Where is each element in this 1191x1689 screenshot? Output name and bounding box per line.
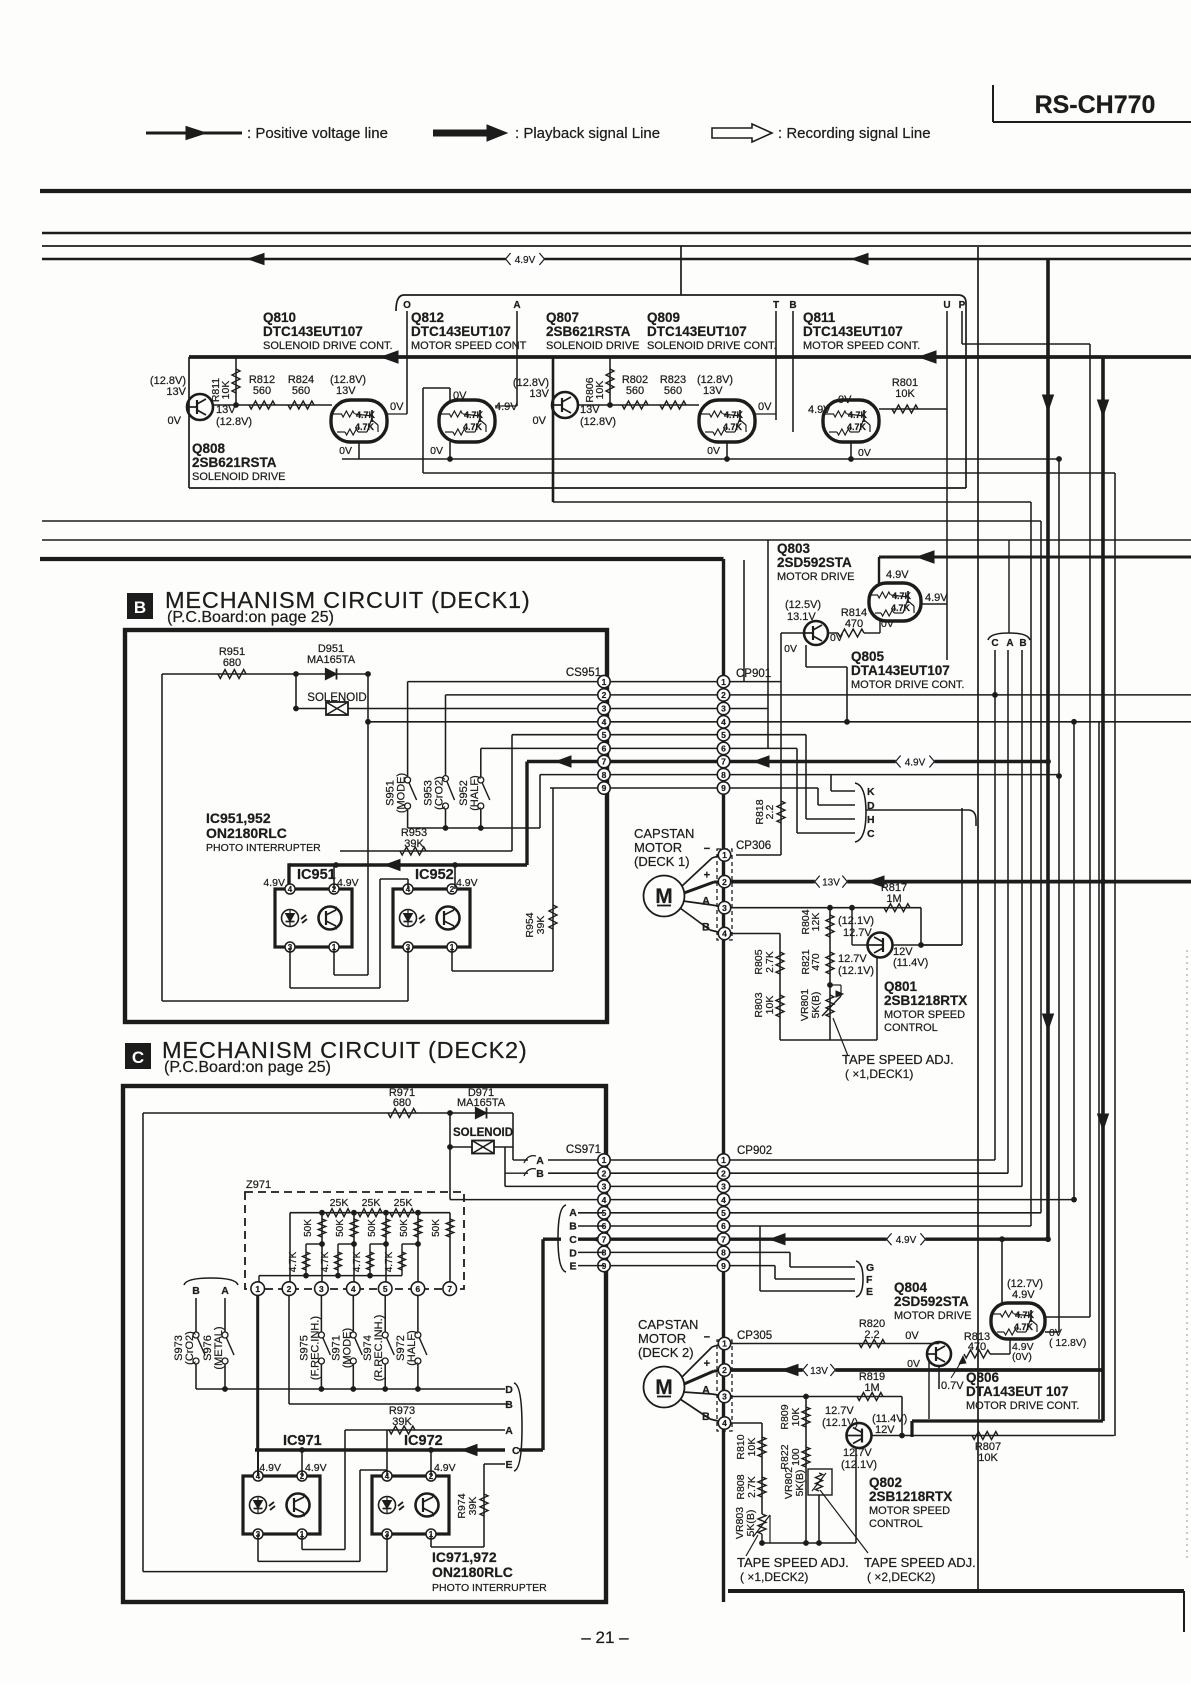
svg-text:4: 4 (722, 929, 727, 939)
svg-text:12.7V: 12.7V (838, 953, 867, 965)
svg-text:C: C (991, 638, 998, 649)
svg-text:3: 3 (722, 1392, 727, 1402)
svg-text:4: 4 (722, 1418, 727, 1428)
svg-text:Z971: Z971 (246, 1179, 271, 1191)
svg-text:4.9V: 4.9V (905, 757, 926, 768)
svg-text:CS951: CS951 (566, 667, 601, 679)
svg-text:(HALF): (HALF) (469, 775, 481, 810)
svg-text:4.7K: 4.7K (463, 422, 483, 432)
svg-text:7: 7 (721, 757, 726, 767)
svg-text:5: 5 (383, 1284, 388, 1294)
svg-text:6: 6 (721, 744, 726, 754)
svg-text:MOTOR SPEED: MOTOR SPEED (884, 1009, 965, 1021)
svg-text:7: 7 (602, 757, 607, 767)
svg-text:0V: 0V (390, 401, 404, 413)
svg-text:MOTOR SPEED CONT.: MOTOR SPEED CONT. (803, 340, 920, 352)
svg-text:B: B (789, 300, 796, 311)
svg-text:7: 7 (721, 1234, 726, 1244)
svg-text:39K: 39K (404, 838, 424, 850)
svg-text:4.9V: 4.9V (896, 1235, 917, 1246)
svg-text:4.9V: 4.9V (886, 569, 909, 581)
svg-text:2SD592STA: 2SD592STA (894, 1294, 969, 1309)
svg-text:B: B (536, 1168, 544, 1180)
svg-text:MOTOR SPEED: MOTOR SPEED (869, 1505, 950, 1517)
svg-text:A: A (221, 1285, 229, 1297)
svg-text:4: 4 (721, 1195, 726, 1205)
svg-text:25K: 25K (394, 1197, 413, 1209)
svg-text:B: B (134, 598, 146, 617)
svg-text:13V: 13V (529, 388, 549, 400)
svg-text:B: B (1019, 638, 1026, 649)
svg-text:4.9V: 4.9V (337, 877, 359, 889)
svg-text:2: 2 (722, 877, 727, 887)
svg-text:680: 680 (223, 657, 241, 669)
svg-text:12.7V: 12.7V (843, 927, 872, 939)
svg-text:( 12.8V): ( 12.8V) (1049, 1337, 1086, 1349)
svg-text:MA165TA: MA165TA (307, 654, 356, 666)
svg-text:P: P (959, 300, 966, 311)
svg-text:(METAL): (METAL) (213, 1326, 225, 1369)
svg-text:2: 2 (721, 690, 726, 700)
svg-text:K: K (867, 786, 875, 798)
svg-text:(MODE): (MODE) (341, 1328, 353, 1368)
svg-text:U: U (943, 300, 950, 311)
svg-text:5: 5 (721, 1208, 726, 1218)
svg-text:50K: 50K (367, 1219, 378, 1237)
svg-text:ON2180RLC: ON2180RLC (206, 825, 287, 841)
svg-text:8: 8 (721, 770, 726, 780)
svg-text:9: 9 (721, 783, 726, 793)
svg-text:DTC143EUT107: DTC143EUT107 (647, 324, 747, 339)
svg-text:PHOTO INTERRUPTER: PHOTO INTERRUPTER (432, 1582, 547, 1594)
svg-text:E: E (569, 1261, 576, 1273)
svg-text:8: 8 (721, 1248, 726, 1258)
svg-text:2: 2 (287, 1284, 292, 1294)
svg-text:9: 9 (602, 783, 607, 793)
svg-text:12.7V: 12.7V (825, 1405, 854, 1417)
svg-text:4.9V: 4.9V (305, 1462, 327, 1474)
svg-text:4.7K: 4.7K (891, 603, 911, 613)
svg-text:4.7K: 4.7K (355, 422, 375, 432)
svg-text:5: 5 (602, 730, 607, 740)
svg-text:4.9V: 4.9V (259, 1462, 281, 1474)
svg-text:(CrO2): (CrO2) (184, 1331, 196, 1365)
svg-text:C: C (512, 1445, 520, 1457)
svg-text:Q803: Q803 (777, 541, 811, 556)
svg-text:13V: 13V (810, 1366, 828, 1377)
svg-text:1: 1 (602, 1155, 607, 1165)
svg-text:Q805: Q805 (851, 649, 885, 664)
svg-text:560: 560 (664, 385, 682, 397)
svg-text:A: A (1006, 638, 1013, 649)
svg-text:560: 560 (253, 385, 271, 397)
svg-text:1M: 1M (886, 893, 901, 905)
svg-text:A: A (702, 896, 710, 908)
svg-text:2.7K: 2.7K (746, 1476, 758, 1498)
svg-text:IC972: IC972 (404, 1433, 443, 1449)
svg-text:0V: 0V (430, 445, 443, 457)
svg-text:Q808: Q808 (192, 441, 226, 456)
svg-text:A: A (505, 1425, 513, 1437)
svg-text:10K: 10K (746, 1438, 758, 1457)
svg-text:MOTOR: MOTOR (634, 840, 682, 855)
svg-text:39K: 39K (535, 916, 547, 935)
svg-text:CAPSTAN: CAPSTAN (638, 1317, 698, 1332)
svg-text:(HALF): (HALF) (406, 1330, 418, 1365)
svg-text:TAPE SPEED ADJ.: TAPE SPEED ADJ. (737, 1555, 849, 1570)
svg-text:0V: 0V (881, 618, 894, 630)
svg-text:0V: 0V (168, 415, 182, 427)
svg-text:6: 6 (721, 1221, 726, 1231)
svg-text:3: 3 (602, 1182, 607, 1192)
svg-text:B: B (569, 1221, 577, 1233)
svg-text:CS971: CS971 (566, 1144, 601, 1156)
svg-text:13V: 13V (580, 404, 600, 416)
svg-text:0.7V: 0.7V (941, 1380, 964, 1392)
svg-text:6: 6 (602, 744, 607, 754)
svg-text:13V: 13V (166, 386, 186, 398)
svg-text:(12.1V): (12.1V) (838, 915, 874, 927)
svg-text:12K: 12K (810, 913, 822, 932)
svg-text:MOTOR DRIVE CONT.: MOTOR DRIVE CONT. (966, 1400, 1079, 1412)
svg-text:(R.REC.INH.): (R.REC.INH.) (373, 1315, 385, 1382)
svg-text:2SD592STA: 2SD592STA (777, 555, 852, 570)
svg-text:M: M (655, 1376, 673, 1399)
svg-text:G: G (866, 1262, 874, 1274)
svg-text:4.9V: 4.9V (515, 255, 536, 266)
svg-text:( ×2,DECK2): ( ×2,DECK2) (867, 1570, 935, 1584)
svg-text:7: 7 (447, 1284, 452, 1294)
svg-text:(P.C.Board:on page 25): (P.C.Board:on page 25) (167, 609, 334, 626)
svg-text:6: 6 (416, 1284, 421, 1294)
svg-text:50K: 50K (399, 1219, 410, 1237)
svg-text:1: 1 (602, 677, 607, 687)
svg-text:( ×1,DECK1): ( ×1,DECK1) (845, 1067, 913, 1081)
svg-text:(12.1V): (12.1V) (822, 1417, 858, 1429)
svg-text:ON2180RLC: ON2180RLC (432, 1564, 513, 1580)
svg-text:4: 4 (721, 717, 726, 727)
svg-text:0V: 0V (707, 445, 720, 457)
svg-text:1: 1 (721, 1155, 726, 1165)
svg-text:1M: 1M (864, 1382, 879, 1394)
svg-text:4.9V: 4.9V (456, 877, 478, 889)
svg-text:4: 4 (602, 717, 607, 727)
svg-text:Q809: Q809 (647, 310, 680, 325)
svg-text:4.7K: 4.7K (288, 1251, 299, 1272)
svg-text:4.9V: 4.9V (263, 877, 285, 889)
svg-text:13V: 13V (216, 404, 236, 416)
svg-text:560: 560 (292, 385, 310, 397)
svg-text:−: − (704, 843, 710, 855)
svg-text:5: 5 (721, 730, 726, 740)
svg-text:3: 3 (319, 1284, 324, 1294)
svg-text:(12.1V): (12.1V) (841, 1459, 877, 1471)
svg-text:1: 1 (722, 1339, 727, 1349)
svg-text:1: 1 (255, 1284, 260, 1294)
svg-text:(DECK 1): (DECK 1) (634, 854, 690, 869)
svg-text:B: B (505, 1399, 513, 1411)
svg-text:DTA143EUT107: DTA143EUT107 (851, 663, 950, 678)
svg-text:Q806: Q806 (966, 1370, 1000, 1385)
svg-text:CP901: CP901 (736, 668, 771, 680)
svg-text:A: A (569, 1207, 577, 1219)
svg-text:(F.REC.INH.): (F.REC.INH.) (309, 1316, 321, 1380)
svg-text:1: 1 (722, 850, 727, 860)
svg-text:B: B (192, 1285, 200, 1297)
svg-text:IC971,972: IC971,972 (432, 1549, 497, 1565)
svg-text:0V: 0V (533, 415, 547, 427)
svg-text:(MODE): (MODE) (396, 773, 408, 813)
svg-text:DTC143EUT107: DTC143EUT107 (263, 324, 363, 339)
svg-text:50K: 50K (303, 1219, 314, 1237)
svg-text:50K: 50K (335, 1219, 346, 1237)
svg-text:C: C (569, 1234, 577, 1246)
svg-text:(11.4V): (11.4V) (893, 957, 928, 969)
svg-text:0V: 0V (905, 1330, 919, 1342)
svg-text:−: − (704, 1332, 710, 1344)
svg-text:2SB621RSTA: 2SB621RSTA (546, 324, 631, 339)
svg-text:10K: 10K (764, 996, 776, 1015)
svg-text:IC951,952: IC951,952 (206, 810, 271, 826)
svg-text:560: 560 (626, 385, 644, 397)
svg-text:39K: 39K (467, 1497, 479, 1516)
svg-text:10K: 10K (220, 381, 232, 400)
svg-text:: Recording signal Line: : Recording signal Line (778, 125, 931, 142)
svg-text:A: A (702, 1385, 710, 1397)
svg-text:Q802: Q802 (869, 1475, 902, 1490)
svg-text:T: T (773, 300, 779, 311)
svg-text:(DECK 2): (DECK 2) (638, 1345, 694, 1360)
svg-text:CP902: CP902 (737, 1145, 772, 1157)
svg-text:2.2: 2.2 (764, 805, 776, 820)
svg-text:100: 100 (790, 1448, 802, 1466)
svg-text:0V: 0V (830, 632, 843, 644)
svg-text:39K: 39K (392, 1416, 412, 1428)
svg-text:3: 3 (602, 704, 607, 714)
svg-text:0V: 0V (838, 394, 852, 406)
svg-text:IC971: IC971 (283, 1433, 322, 1449)
svg-text:SOLENOID DRIVE: SOLENOID DRIVE (546, 340, 640, 352)
svg-text:0V: 0V (858, 447, 871, 459)
svg-text:13.1V: 13.1V (787, 611, 816, 623)
svg-text:(12.1V): (12.1V) (838, 965, 874, 977)
svg-text:MA165TA: MA165TA (457, 1097, 506, 1109)
svg-text:CP305: CP305 (737, 1330, 772, 1342)
svg-text:O: O (403, 300, 411, 311)
svg-text:5K(B): 5K(B) (810, 992, 822, 1019)
svg-text:(P.C.Board:on page 25): (P.C.Board:on page 25) (164, 1059, 331, 1076)
svg-text:25K: 25K (362, 1197, 381, 1209)
svg-text:IC951: IC951 (297, 867, 336, 883)
svg-text:MOTOR SPEED CONT: MOTOR SPEED CONT (411, 340, 527, 352)
svg-text:+: + (704, 870, 710, 882)
svg-text:SOLENOID: SOLENOID (453, 1127, 513, 1139)
svg-text:4: 4 (351, 1284, 356, 1294)
svg-text:1: 1 (721, 677, 726, 687)
svg-text:2: 2 (722, 1365, 727, 1375)
svg-text:TAPE SPEED ADJ.: TAPE SPEED ADJ. (864, 1555, 976, 1570)
svg-text:Q801: Q801 (884, 979, 918, 994)
svg-text:4: 4 (602, 1195, 607, 1205)
svg-text:2.7K: 2.7K (764, 951, 776, 973)
svg-text:13V: 13V (336, 385, 356, 397)
svg-text:Q810: Q810 (263, 310, 296, 325)
svg-text:Q812: Q812 (411, 310, 444, 325)
svg-text:C: C (867, 828, 875, 840)
svg-text:D: D (569, 1248, 577, 1260)
svg-text:7: 7 (602, 1234, 607, 1244)
svg-text:0V: 0V (339, 445, 352, 457)
svg-text:MOTOR DRIVE CONT.: MOTOR DRIVE CONT. (851, 679, 964, 691)
svg-text:(12.8V): (12.8V) (580, 416, 616, 428)
svg-text:2: 2 (602, 690, 607, 700)
svg-text:(12.8V): (12.8V) (216, 416, 252, 428)
svg-text:0V: 0V (784, 643, 797, 655)
svg-text:DTC143EUT107: DTC143EUT107 (411, 324, 511, 339)
svg-text:A: A (536, 1155, 544, 1167)
svg-text:4.9V: 4.9V (495, 401, 518, 413)
svg-text:0V: 0V (758, 401, 772, 413)
svg-text:2SB1218RTX: 2SB1218RTX (884, 993, 967, 1008)
svg-text:3: 3 (721, 704, 726, 714)
svg-text:4.9V: 4.9V (434, 1462, 456, 1474)
svg-text:2: 2 (721, 1168, 726, 1178)
svg-text:C: C (132, 1048, 144, 1067)
svg-text:10K: 10K (594, 381, 606, 400)
svg-text:(12.5V): (12.5V) (785, 599, 821, 611)
svg-text:(CrO2): (CrO2) (434, 776, 446, 810)
svg-text:10K: 10K (790, 1408, 802, 1427)
svg-text:MOTOR: MOTOR (638, 1331, 686, 1346)
svg-text:12.7V: 12.7V (843, 1447, 872, 1459)
svg-text:SOLENOID DRIVE CONT.: SOLENOID DRIVE CONT. (263, 340, 393, 352)
svg-text:CAPSTAN: CAPSTAN (634, 826, 694, 841)
svg-text:: Playback signal Line: : Playback signal Line (515, 125, 660, 142)
svg-text:50K: 50K (431, 1219, 442, 1237)
svg-text:13V: 13V (703, 385, 723, 397)
svg-text:4: 4 (288, 885, 293, 894)
svg-text:DTA143EUT 107: DTA143EUT 107 (966, 1384, 1069, 1399)
svg-text:5K(B): 5K(B) (794, 1470, 806, 1497)
svg-text:680: 680 (393, 1097, 411, 1109)
svg-text:MOTOR DRIVE: MOTOR DRIVE (777, 571, 854, 583)
svg-text:10K: 10K (978, 1452, 998, 1464)
svg-text:CONTROL: CONTROL (884, 1022, 938, 1034)
svg-text:4.9V: 4.9V (1012, 1289, 1035, 1301)
svg-text:( ×1,DECK2): ( ×1,DECK2) (740, 1570, 808, 1584)
svg-text:470: 470 (810, 953, 822, 971)
svg-text:4.7K: 4.7K (352, 1251, 363, 1272)
svg-text:D: D (867, 800, 875, 812)
svg-text:+: + (704, 1358, 710, 1370)
svg-text:MOTOR DRIVE: MOTOR DRIVE (894, 1310, 971, 1322)
svg-text:9: 9 (721, 1261, 726, 1271)
svg-text:RS-CH770: RS-CH770 (1035, 91, 1156, 119)
svg-text:3: 3 (722, 903, 727, 913)
svg-text:CONTROL: CONTROL (869, 1518, 923, 1530)
svg-text:TAPE SPEED ADJ.: TAPE SPEED ADJ. (842, 1052, 954, 1067)
svg-text:: Positive voltage line: : Positive voltage line (247, 125, 388, 142)
svg-text:2: 2 (450, 885, 455, 894)
svg-text:5K(B): 5K(B) (745, 1510, 757, 1537)
svg-text:4.7K: 4.7K (847, 422, 867, 432)
svg-text:Q811: Q811 (803, 310, 836, 325)
svg-text:PHOTO INTERRUPTER: PHOTO INTERRUPTER (206, 842, 321, 854)
svg-text:F: F (866, 1274, 873, 1286)
svg-text:3: 3 (721, 1182, 726, 1192)
svg-text:(0V): (0V) (1012, 1351, 1032, 1363)
svg-text:470: 470 (968, 1341, 986, 1353)
svg-text:SOLENOID DRIVE CONT.: SOLENOID DRIVE CONT. (647, 340, 777, 352)
svg-text:E: E (505, 1459, 512, 1471)
svg-text:H: H (867, 814, 875, 826)
svg-text:A: A (513, 300, 520, 311)
svg-text:25K: 25K (330, 1197, 349, 1209)
svg-text:M: M (655, 885, 673, 908)
svg-text:4.7K: 4.7K (1014, 1322, 1034, 1332)
svg-text:4.7K: 4.7K (723, 422, 743, 432)
svg-text:4.7K: 4.7K (320, 1251, 331, 1272)
svg-text:2.2: 2.2 (864, 1329, 879, 1341)
svg-text:4.9V: 4.9V (925, 592, 948, 604)
svg-text:10K: 10K (895, 388, 915, 400)
svg-text:470: 470 (845, 618, 863, 630)
svg-text:Q804: Q804 (894, 1280, 928, 1295)
svg-text:CP306: CP306 (736, 840, 771, 852)
svg-text:13V: 13V (822, 877, 840, 888)
svg-text:DTC143EUT107: DTC143EUT107 (803, 324, 903, 339)
svg-text:Q807: Q807 (546, 310, 579, 325)
svg-text:E: E (866, 1286, 873, 1298)
svg-text:IC952: IC952 (415, 867, 454, 883)
svg-text:8: 8 (602, 770, 607, 780)
svg-text:2SB621RSTA: 2SB621RSTA (192, 455, 277, 470)
svg-text:12V: 12V (875, 1424, 895, 1436)
svg-text:D: D (505, 1384, 513, 1396)
svg-text:– 21 –: – 21 – (581, 1628, 629, 1647)
svg-text:4.7K: 4.7K (384, 1251, 395, 1272)
svg-text:2: 2 (602, 1168, 607, 1178)
svg-text:SOLENOID DRIVE: SOLENOID DRIVE (192, 471, 286, 483)
svg-text:2SB1218RTX: 2SB1218RTX (869, 1489, 952, 1504)
